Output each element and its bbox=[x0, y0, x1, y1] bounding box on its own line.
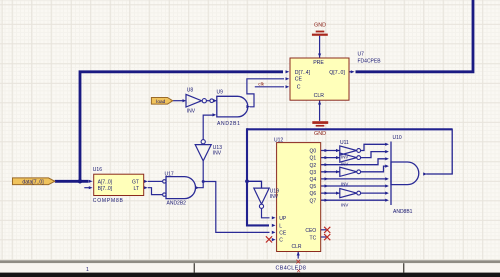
svg-text:U11: U11 bbox=[340, 140, 349, 146]
svg-text:Q6: Q6 bbox=[310, 191, 317, 197]
svg-text:INV: INV bbox=[187, 108, 196, 114]
svg-text:U9: U9 bbox=[217, 89, 224, 95]
svg-text:CLR: CLR bbox=[292, 244, 302, 250]
svg-text:GND: GND bbox=[314, 131, 326, 137]
svg-text:U8: U8 bbox=[187, 87, 194, 93]
svg-text:INV: INV bbox=[270, 194, 279, 200]
svg-text:C: C bbox=[279, 238, 283, 244]
svg-text:AND2B1: AND2B1 bbox=[217, 121, 241, 127]
svg-text:FD4CPEB: FD4CPEB bbox=[358, 59, 382, 65]
svg-text:TC: TC bbox=[310, 235, 317, 241]
svg-text:Q4: Q4 bbox=[310, 177, 317, 183]
svg-text:D[7..4]: D[7..4] bbox=[295, 70, 311, 76]
svg-text:CE: CE bbox=[279, 231, 287, 237]
svg-text:clk: clk bbox=[258, 81, 264, 87]
svg-text:GND: GND bbox=[314, 22, 326, 28]
svg-text:COMPM8B: COMPM8B bbox=[93, 198, 124, 204]
svg-text:Q0: Q0 bbox=[310, 149, 317, 155]
svg-text:Q5: Q5 bbox=[310, 184, 317, 190]
svg-text:U16: U16 bbox=[93, 167, 102, 173]
svg-text:INV: INV bbox=[341, 202, 348, 207]
svg-text:INV: INV bbox=[341, 181, 348, 186]
svg-text:INV: INV bbox=[341, 162, 348, 167]
svg-text:GT: GT bbox=[132, 180, 139, 186]
svg-text:1: 1 bbox=[86, 267, 89, 273]
svg-text:Q[7..0]: Q[7..0] bbox=[329, 70, 345, 76]
svg-text:CEO: CEO bbox=[305, 228, 316, 234]
svg-text:Q7: Q7 bbox=[310, 198, 317, 204]
svg-text:CE: CE bbox=[295, 77, 303, 83]
svg-text:LT: LT bbox=[134, 186, 139, 192]
svg-text:L: L bbox=[279, 223, 282, 229]
svg-text:Q2: Q2 bbox=[310, 163, 317, 169]
svg-text:B[7..0]: B[7..0] bbox=[98, 186, 113, 192]
svg-text:UP: UP bbox=[279, 216, 287, 222]
svg-text:data[7..0]: data[7..0] bbox=[22, 180, 44, 186]
svg-text:Q3: Q3 bbox=[310, 170, 317, 176]
svg-text:U10: U10 bbox=[393, 135, 402, 141]
svg-text:A[7..0]: A[7..0] bbox=[98, 180, 113, 186]
svg-text:U17: U17 bbox=[165, 172, 174, 178]
svg-text:load: load bbox=[156, 99, 165, 105]
svg-text:U7: U7 bbox=[358, 51, 365, 57]
svg-text:CLR: CLR bbox=[314, 93, 325, 99]
svg-text:Q1: Q1 bbox=[310, 156, 317, 162]
svg-text:PRE: PRE bbox=[313, 60, 324, 66]
svg-text:INV: INV bbox=[341, 155, 348, 160]
svg-text:AND8B1: AND8B1 bbox=[393, 209, 413, 215]
svg-text:U12: U12 bbox=[274, 137, 283, 143]
svg-text:INV: INV bbox=[213, 151, 222, 157]
svg-text:CB4CLED8: CB4CLED8 bbox=[276, 265, 307, 271]
svg-text:C: C bbox=[297, 85, 301, 91]
svg-text:AND2B2: AND2B2 bbox=[167, 200, 187, 206]
